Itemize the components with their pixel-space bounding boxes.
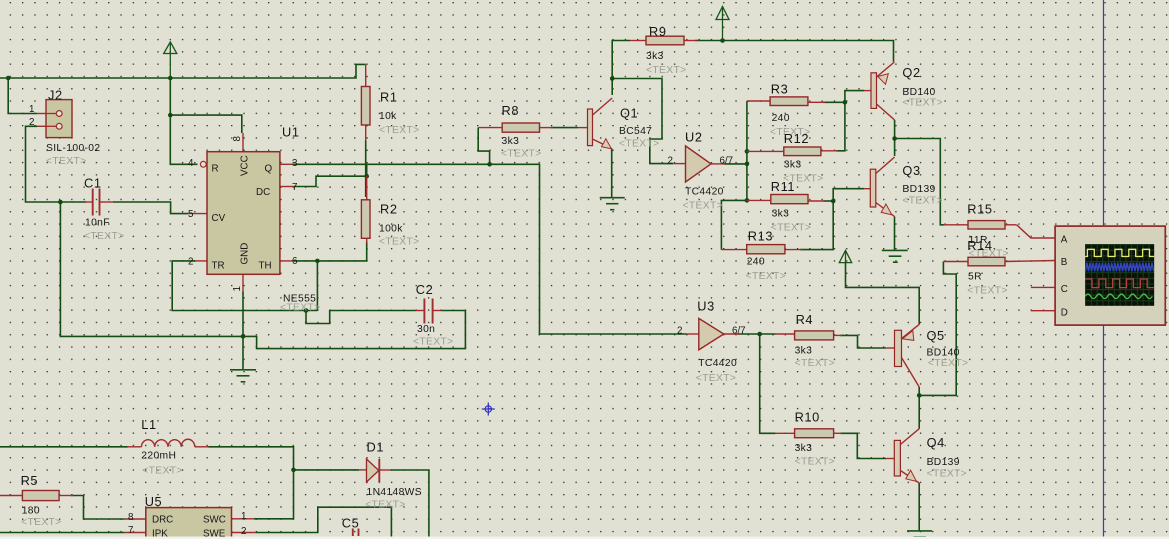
wire TH drop to TR row [316,261,318,311]
svg-text:10nF: 10nF [85,218,110,229]
wire VCC branch to pin8 [170,115,242,133]
svg-text:TR: TR [212,261,225,272]
svg-text:A: A [1061,235,1068,246]
junction DC/R1/R2 node [364,174,369,179]
svg-text:TC4420: TC4420 [698,358,737,369]
svg-text:BD140: BD140 [927,348,960,359]
svg-text:<TEXT>: <TEXT> [967,286,1007,297]
svg-text:BD140: BD140 [902,87,935,98]
trace B blue dense [1085,263,1153,272]
junction TR/C2 node [304,308,309,313]
svg-text:<TEXT>: <TEXT> [928,358,968,369]
svg-text:Q5: Q5 [927,328,945,343]
resistor R3 [747,97,825,106]
svg-text:CV: CV [212,213,226,224]
svg-text:220mH: 220mH [141,451,176,462]
wire VCC branch down to pin4 row [170,78,197,164]
capacitor C1 [86,189,113,216]
sheet border blue line bottom [1103,325,1105,539]
wire R12 right riser [836,102,845,151]
resistor R4 [776,331,842,340]
bottom window strip [0,537,1169,539]
svg-text:3k3: 3k3 [795,346,813,357]
svg-text:<TEXT>: <TEXT> [902,196,942,207]
svg-text:<TEXT>: <TEXT> [84,231,124,242]
svg-text:R14: R14 [967,238,992,253]
junction ground rail [241,334,246,339]
wire R9 left vertical to Q1 collector [612,41,630,96]
resistor R10 [776,429,842,438]
wire R3 right to Q2 base node [823,101,845,103]
resistor R8 [478,123,553,132]
svg-text:8: 8 [128,512,134,523]
transistor Q4 BD139 [886,429,919,483]
ground Q1 [600,198,625,210]
oscilloscope / analyser [1017,225,1166,325]
svg-text:<TEXT>: <TEXT> [501,149,541,160]
wire L1 row left [0,446,128,448]
svg-text:240: 240 [772,113,790,124]
svg-text:<TEXT>: <TEXT> [379,237,419,248]
svg-text:TH: TH [259,261,272,272]
svg-text:D1: D1 [367,440,385,455]
svg-text:<TEXT>: <TEXT> [21,517,61,528]
resistor R12 [747,147,838,156]
wire Q output row to U3 input [294,164,687,334]
svg-text:<TEXT>: <TEXT> [142,466,182,477]
svg-text:R: R [212,164,219,175]
transistor Q3 BD139 [864,157,894,217]
wire Q1 emitter to ground [611,149,613,198]
origin marker [482,403,495,416]
svg-text:<TEXT>: <TEXT> [795,358,835,369]
svg-text:Q3: Q3 [902,163,920,178]
resistor R2 [361,176,370,243]
svg-text:BD139: BD139 [902,184,935,195]
wire Q2 collector drop [894,120,896,139]
capacitor C2 [416,299,442,324]
junction R12 row [745,149,750,154]
svg-text:SWC: SWC [203,515,226,526]
svg-text:<TEXT>: <TEXT> [795,457,835,468]
junction D1 anode node [291,468,296,473]
power symbol P2 (top middle) [716,7,729,41]
svg-text:5: 5 [188,209,194,220]
junction collector output node [892,136,897,141]
svg-text:8: 8 [232,136,243,142]
resistor R15 [944,221,1017,229]
junction rail/power [168,76,173,81]
junction Q5/Q4 output node [917,393,922,398]
wire R11 right to Q3 base node [824,200,834,202]
svg-text:10k: 10k [379,111,397,122]
wire R1 bottom to R2 top vertical [365,140,367,197]
svg-text:U3: U3 [697,299,715,314]
svg-text:1: 1 [241,511,246,522]
wire U5 SWE to C5 loop [256,507,392,539]
svg-text:1: 1 [232,286,243,291]
svg-text:2: 2 [668,156,673,167]
svg-text:3k3: 3k3 [646,51,664,62]
svg-text:R4: R4 [796,312,814,327]
svg-text:C5: C5 [342,516,360,531]
junction C1 node [58,200,63,205]
junction U2 out row [745,162,750,167]
transistor Q1 BC547 [578,98,612,149]
svg-text:DRC: DRC [152,515,173,526]
svg-text:R8: R8 [502,103,520,118]
trace C red square [1085,279,1154,288]
connector J2 [37,100,72,138]
svg-text:L1: L1 [141,417,156,432]
svg-text:Q: Q [265,164,273,175]
sheet border blue line top [1103,0,1105,226]
transistor Q5 BD140 [886,324,919,387]
svg-text:U1: U1 [282,125,300,140]
svg-text:180: 180 [22,506,40,517]
svg-text:R12: R12 [784,131,809,146]
svg-text:<TEXT>: <TEXT> [280,303,320,314]
ground Q4 (clipped at bottom) [907,531,932,537]
resistor R9 [630,36,697,45]
wire C1 right to U1 CV [113,202,188,214]
svg-text:3: 3 [292,158,298,169]
wire collector node to R15 [895,139,944,225]
svg-text:<TEXT>: <TEXT> [746,271,786,282]
junction TH row [315,259,320,264]
svg-text:<TEXT>: <TEXT> [696,373,736,384]
svg-text:U5: U5 [145,494,163,509]
wire VCC rail top right [695,41,894,62]
svg-text:DC: DC [256,187,270,198]
svg-text:J2: J2 [48,88,63,103]
capacitor C5 (clipped at bottom) [353,529,359,537]
svg-text:<TEXT>: <TEXT> [646,65,686,76]
junction rail / power arrow top [720,38,725,43]
svg-text:GND: GND [240,243,251,265]
svg-text:R5: R5 [21,473,39,488]
svg-text:<TEXT>: <TEXT> [683,201,723,212]
wire Q1 collector node to U2 input [612,79,673,164]
wire Q4 emitter to ground [918,483,920,531]
wire C1 node down to ground rail [60,202,243,336]
resistor R5 [0,491,73,501]
wire R2 bottom [366,241,368,261]
wire VCC rail right to R1 [170,64,365,78]
svg-text:<TEXT>: <TEXT> [46,156,86,167]
wire R13 right riser [800,201,833,250]
svg-text:R9: R9 [649,24,667,39]
svg-text:100k: 100k [379,224,403,235]
power symbol P1 (top left) [164,42,177,78]
transistor Q2 BD140 [864,62,895,120]
svg-text:R1: R1 [380,90,398,105]
junction R11 row [745,198,750,203]
svg-text:Q1: Q1 [620,106,638,121]
svg-text:2: 2 [188,257,193,268]
buffer U3 TC4420 [687,318,741,350]
svg-text:R13: R13 [748,229,773,244]
wire R13 left branch [721,200,747,249]
svg-text:D: D [1061,308,1068,319]
svg-text:U2: U2 [685,130,703,145]
svg-text:2: 2 [677,326,682,337]
svg-text:Q4: Q4 [927,435,945,450]
junction Q2 base node [843,100,848,105]
svg-text:1N4148WS: 1N4148WS [367,487,422,498]
wire R5 right to U5 DRC [71,496,125,520]
svg-text:Q2: Q2 [902,65,920,80]
trace A yellow square [1085,249,1154,256]
svg-text:R10: R10 [795,410,820,425]
wire R4 right to Q5 base [840,335,886,348]
svg-text:R11: R11 [771,179,795,194]
svg-text:30n: 30n [417,324,435,335]
wire L1 right to D1 node riser [209,447,294,519]
svg-text:C2: C2 [416,282,434,297]
wire power arrow2 to Q5 emitter [846,263,920,325]
svg-text:7: 7 [128,525,133,536]
svg-text:R2: R2 [380,202,398,217]
svg-text:240: 240 [747,257,765,268]
trace D green sine [1085,294,1152,299]
wire rail dot to J2 pin1 [8,78,37,114]
wire Q2 base riser [845,91,864,103]
wire mid column vertical R3 to R11 [746,101,748,200]
svg-text:<TEXT>: <TEXT> [902,98,942,109]
svg-text:6: 6 [292,256,298,267]
power symbol P3 (middle) [839,250,851,262]
wire R10 right to Q4 base [840,433,886,458]
wire D1 node to diode [294,469,360,471]
svg-text:<TEXT>: <TEXT> [927,469,967,480]
wire VCC rail left [0,77,170,79]
svg-text:7: 7 [292,182,297,193]
wire IPK row to left edge [0,532,125,534]
resistor R11 [747,195,825,204]
svg-text:R15: R15 [967,202,992,217]
svg-text:B: B [1061,257,1068,268]
wire Q3 emitter to ground [894,217,896,251]
svg-text:3k3: 3k3 [502,136,520,147]
svg-text:<TEXT>: <TEXT> [413,337,453,348]
wire R8 right to Q1 base [551,127,578,129]
svg-text:TC4420: TC4420 [685,187,724,198]
junction rail/J2 [6,76,11,81]
resistor R14 [943,257,1055,266]
junction VCC branch [168,113,173,118]
diode D1 1N4148WS [359,459,390,482]
inductor L1 [128,439,209,447]
svg-text:BD139: BD139 [927,457,960,468]
ground Q3 [882,250,908,262]
wire U3 output node [738,333,776,335]
buffer U2 TC4420 [673,146,726,182]
wire TR node jog to C2 left [306,311,416,324]
wire R8 left branch [478,128,489,165]
wire D1 cathode down right [390,470,429,539]
svg-text:<TEXT>: <TEXT> [379,125,419,136]
svg-text:SIL-100-02: SIL-100-02 [46,143,100,154]
wire C2 right return to ground rail [243,311,465,349]
svg-text:2: 2 [241,526,246,537]
resistor R1 [361,64,370,141]
wire U1 GND vertical to ground [242,292,244,370]
wire Q5 collector to Q4 collector [918,387,920,429]
wire U1 TH row [294,260,367,262]
svg-text:<TEXT>: <TEXT> [619,139,659,150]
IC U5 (regulator, clipped at bottom) [125,508,256,539]
svg-text:6/7: 6/7 [732,326,746,337]
svg-text:R3: R3 [771,82,789,97]
wire Q3 collector rise [894,139,896,157]
wire U1 TR loop [172,261,317,311]
junction U3 output [757,332,762,337]
svg-text:3k3: 3k3 [772,209,790,220]
wire Q3 base riser [833,189,864,201]
junction Q row / R8 [487,162,492,167]
wire R1R2 node vertical stub [366,164,368,176]
junction Q3 base node [831,199,836,204]
wire U2 output to mid column [724,163,747,165]
IC U1 NE555 [188,133,293,292]
svg-text:6/7: 6/7 [720,156,734,167]
svg-text:VCC: VCC [240,155,251,176]
svg-text:C: C [1061,284,1068,295]
svg-text:<TEXT>: <TEXT> [771,223,811,234]
svg-text:4: 4 [188,158,194,169]
svg-text:5R: 5R [968,272,982,283]
ground U1 [230,370,256,382]
wire R14 left branch to output node [919,262,956,396]
wire U1 DC to R1R2 node [294,176,367,186]
svg-text:3k3: 3k3 [795,443,813,454]
svg-text:C1: C1 [84,176,102,191]
wire U3 output down to R10 [760,334,776,433]
svg-text:1: 1 [29,104,34,115]
resistor R13 [721,245,802,254]
svg-text:BC547: BC547 [619,126,652,137]
wire J2 pin2 to C1 [26,126,87,202]
svg-text:3k3: 3k3 [784,160,802,171]
svg-text:2: 2 [29,117,34,128]
junction Q1 collector node [610,76,615,81]
svg-text:<TEXT>: <TEXT> [365,500,405,511]
